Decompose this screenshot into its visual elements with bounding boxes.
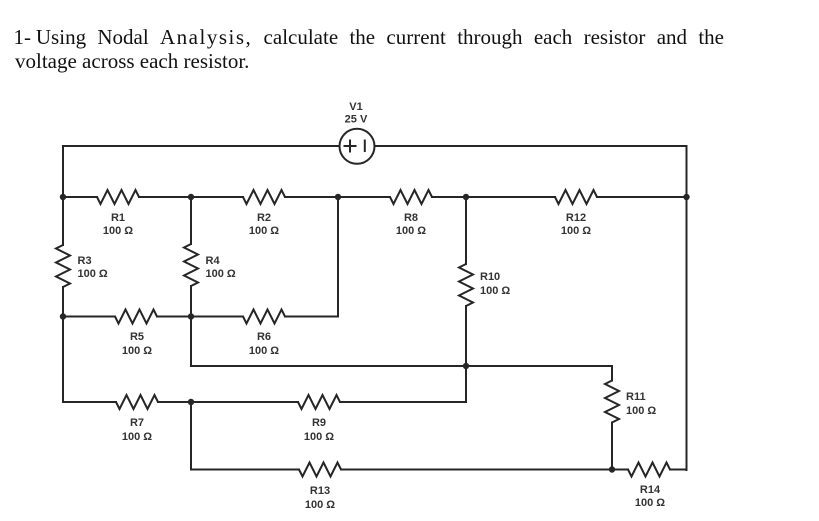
resistor R11 [605,381,619,423]
node dot row1 right rail [683,194,689,200]
svg-text:R1: R1 [111,212,125,224]
resistor R1 [97,190,139,204]
svg-text:R3: R3 [78,255,92,267]
node dot row2 R5/R6 junction [188,313,194,319]
svg-text:V1: V1 [349,101,362,113]
svg-text:100 Ω: 100 Ω [78,268,108,280]
svg-text:R7: R7 [130,417,144,429]
svg-text:100 Ω: 100 Ω [206,268,236,280]
svg-text:R13: R13 [310,485,330,497]
label R2 [249,212,279,237]
resistor R13 [299,463,341,477]
node dot row3 R10 junction [463,363,469,369]
node dot row5 R13/R14 junction [609,466,615,472]
resistor R2 [243,190,285,204]
svg-text:100 Ω: 100 Ω [305,499,335,511]
label R5 [122,331,152,357]
svg-text:R4: R4 [206,255,221,267]
resistor R9 [298,395,340,409]
svg-text:100 Ω: 100 Ω [480,285,510,297]
wire node B drop to row3 [190,317,192,367]
node dot row1 R8/R12 junction [463,194,469,200]
wire row3 horizontal [191,365,612,367]
svg-text:R14: R14 [640,484,661,496]
wire row5 segments [191,469,687,471]
voltage source V1 [340,129,375,164]
svg-text:R10: R10 [480,271,500,283]
resistor R3 [56,245,70,287]
svg-text:R2: R2 [257,212,271,224]
wire R10 column [465,197,467,366]
wire top right from V1 to right rail [375,145,687,147]
label R3 [78,255,108,280]
resistor R14 [628,463,670,477]
resistor R12 [555,190,597,204]
wire right rail vertical [686,146,688,470]
svg-text:R5: R5 [130,331,144,343]
wire row4 segments [63,401,466,403]
svg-text:R11: R11 [626,391,646,403]
label R14 [635,484,665,509]
label R11 [626,391,656,417]
label R4 [206,255,236,280]
svg-text:R6: R6 [257,331,271,343]
wire riser between R6 and row1 [337,197,339,317]
label R9 [304,417,334,443]
svg-text:100 Ω: 100 Ω [249,345,279,357]
wire R4 column [190,197,192,317]
svg-text:100 Ω: 100 Ω [122,431,152,443]
label R12 [561,212,591,237]
svg-text:100 Ω: 100 Ω [249,225,279,237]
svg-text:25 V: 25 V [345,114,368,126]
label R6 [249,331,279,357]
label R7 [122,417,152,443]
svg-text:R12: R12 [566,212,586,224]
wire left rail vertical [62,146,64,402]
node dot row2 left rail [60,313,66,319]
svg-text:100 Ω: 100 Ω [635,497,665,509]
wire riser row4 to row3 [465,366,467,402]
wire row1 segments [63,196,687,198]
svg-text:R9: R9 [312,417,326,429]
resistor R4 [184,244,198,286]
svg-text:100 Ω: 100 Ω [304,431,334,443]
resistor R10 [459,264,473,306]
svg-text:100 Ω: 100 Ω [626,405,656,417]
svg-text:R8: R8 [404,212,418,224]
label R10 [480,271,510,297]
resistor R5 [115,310,157,324]
wire top left from left rail to V1 [63,145,340,147]
node dot row1 R1/R2 junction [188,194,194,200]
resistor R8 [390,190,432,204]
resistor R7 [116,395,158,409]
label R13 [305,485,335,511]
wire node D drop to row5 [190,402,192,470]
svg-text:100 Ω: 100 Ω [396,225,426,237]
label V1 value [345,101,368,126]
svg-text:100 Ω: 100 Ω [122,345,152,357]
label R8 [396,212,426,237]
svg-text:100 Ω: 100 Ω [561,225,591,237]
node dot row4 R7/R9 junction [188,399,194,405]
resistor R6 [243,310,285,324]
wire R11 column [611,366,613,470]
label R1 [103,212,133,237]
wire row2 segments [63,316,338,318]
svg-text:100 Ω: 100 Ω [103,225,133,237]
node dot row1 left rail [60,194,66,200]
node dot row1 R2/R8 junction [335,194,341,200]
